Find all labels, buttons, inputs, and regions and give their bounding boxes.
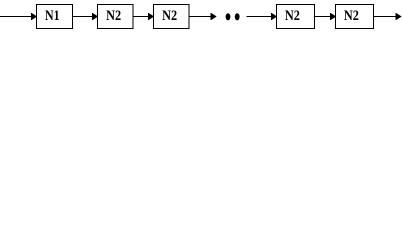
wire input arrow (0, 16, 36, 18)
svg-text:N2: N2 (285, 8, 300, 24)
wire arrow N2c to N2d (315, 16, 336, 18)
svg-text:N2: N2 (106, 8, 121, 24)
wire arrow N2b to ellipsis (189, 16, 216, 18)
wire arrow N2a to N2b (133, 16, 153, 18)
node N1 box (37, 5, 73, 29)
svg-text:N1: N1 (45, 8, 60, 24)
wire arrow ellipsis to N2c (247, 16, 277, 18)
svg-text:N2: N2 (162, 8, 177, 24)
ellipsis dot 2 (235, 13, 240, 20)
wire output arrow (374, 16, 401, 18)
svg-text:N2: N2 (344, 8, 359, 24)
node N2b box (154, 5, 190, 29)
node N2c box (277, 5, 315, 29)
node N2a box (98, 5, 134, 29)
node N2d box (336, 5, 374, 29)
ellipsis dot 1 (226, 13, 231, 20)
wire arrow N1 to N2a (73, 16, 98, 18)
